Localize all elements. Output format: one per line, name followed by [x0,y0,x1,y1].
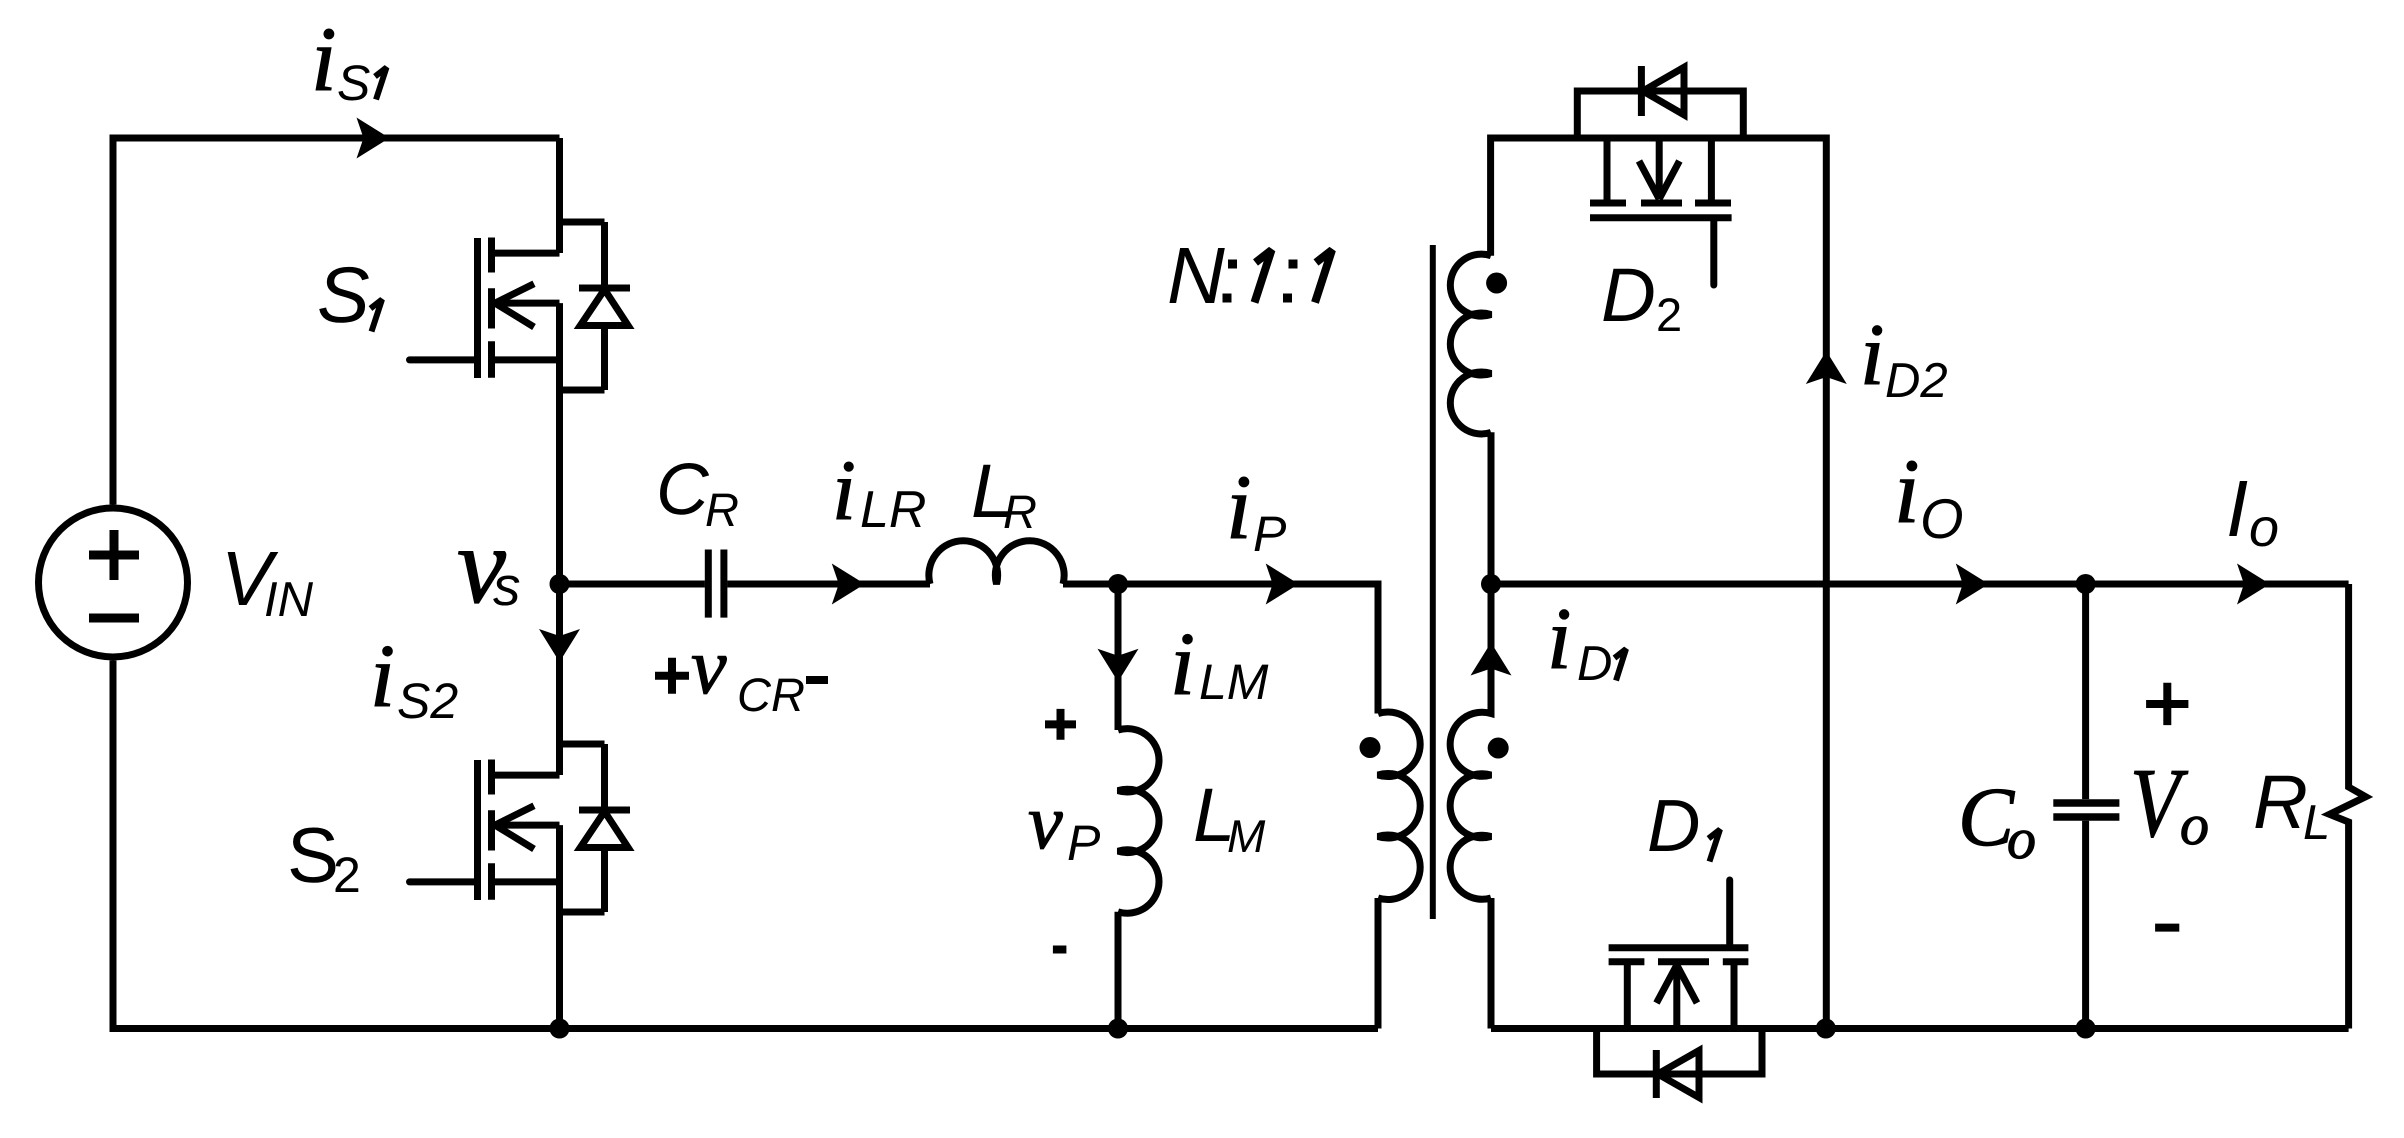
svg-text:I: I [2226,464,2248,553]
transformer core [1430,245,1436,919]
capacitor CR [708,550,724,618]
wire: input loop bottom + primary bottom rail [113,661,1378,1029]
svg-text:D: D [1601,253,1656,338]
arrow iD1 [1471,643,1512,676]
arrow Io [2237,564,2270,605]
svg-text:R: R [705,483,739,536]
svg-text:i: i [1226,456,1252,558]
inductor LR [929,541,1064,584]
arrow iLR [832,564,865,605]
arrow iLM [1098,649,1139,682]
junction dot bottom rail at S2 [550,1019,570,1039]
svg-text:D: D [1577,637,1612,691]
svg-text:LM: LM [1199,654,1269,710]
svg-text:D: D [1647,784,1700,867]
capacitor Co branch [2082,584,2089,1029]
label +vCR- [655,658,828,694]
arrow iS2 [539,629,580,662]
svg-text:N: N [1167,231,1225,320]
rectifier D1 mosfet [1609,880,1749,1029]
arrow iS1 [357,118,390,159]
svg-text:i: i [311,8,337,110]
source VIN [39,508,188,657]
svg-text:S: S [317,250,370,339]
transistor S1 [410,222,631,390]
junction dot iD2 leg bottom [1816,1019,1836,1039]
svg-text:M: M [1227,810,1266,862]
label - below Vo [2155,924,2179,932]
node Co top junction dot [2076,574,2096,594]
transistor S2 [410,744,631,912]
svg-text:P: P [1253,506,1287,562]
node vs junction dot [550,574,570,594]
arrow iO [1956,564,1989,605]
svg-text:i: i [832,442,856,538]
wire: half-bridge vertical segments [556,138,563,253]
svg-text:P: P [1067,815,1101,871]
capacitor Co plates [2053,803,2119,817]
svg-text:i: i [1860,307,1884,404]
svg-text:v: v [1028,778,1063,865]
wire: LM branch lower [1115,912,1122,1029]
inductor LM [1118,729,1159,914]
svg-text:L: L [2303,796,2330,850]
transformer primary winding [1378,712,1420,1029]
svg-text:i: i [1547,591,1571,688]
diode of D2 [1577,66,1743,138]
svg-text:R: R [1003,485,1037,538]
transformer secondary top winding [1450,254,1491,584]
svg-text:S: S [287,811,339,899]
svg-text:R: R [2253,760,2308,845]
svg-text:LR: LR [860,481,926,539]
transformer secondary bottom winding [1450,584,1491,1029]
arrow iD2 [1806,351,1847,384]
junction dot Co bottom [2076,1019,2096,1039]
svg-text:o: o [2007,806,2036,871]
svg-text:o: o [2180,792,2209,857]
wire: D2 top rail [1491,138,1827,1029]
label + above vP [1045,709,1076,740]
wire: CR to LR [727,581,930,588]
node secondary output junction dot [1481,574,1501,594]
wire: mid horizontal vs to CR [560,581,705,588]
svg-text:IN: IN [264,573,314,627]
junction dot LM bottom [1108,1019,1128,1039]
resistor RL [2330,584,2366,1029]
wire: LM branch upper [1115,584,1122,730]
secondary bottom polarity dot [1488,738,1509,759]
node at LM junction dot [1108,574,1128,594]
label - below vP [1053,946,1067,954]
arrow iP [1266,564,1299,605]
label + above Vo [2146,683,2188,725]
primary polarity dot [1360,737,1381,758]
secondary top polarity dot [1486,273,1507,294]
svg-text:D2: D2 [1885,354,1948,408]
svg-text:i: i [370,627,395,726]
svg-text:o: o [2249,498,2279,558]
svg-text:O: O [1920,487,1964,550]
diode of D1 [1597,1029,1762,1099]
svg-text:s: s [493,555,521,617]
rectifier D2 mosfet [1590,138,1732,285]
svg-text:CR: CR [737,668,805,721]
svg-text:i: i [1894,440,1920,542]
wire: secondary bottom rail [1491,1025,2349,1032]
svg-text:i: i [1170,615,1195,714]
svg-text:2: 2 [333,847,361,903]
wire: LR to primary corner [1063,584,1378,714]
svg-text:2: 2 [1656,288,1682,341]
svg-text:S: S [337,55,370,111]
wire: input loop top-left [113,138,560,505]
svg-text:S2: S2 [397,673,458,729]
wire: output horizontal [1491,581,2349,588]
svg-text:C: C [656,449,710,530]
svg-text:v: v [691,623,727,711]
